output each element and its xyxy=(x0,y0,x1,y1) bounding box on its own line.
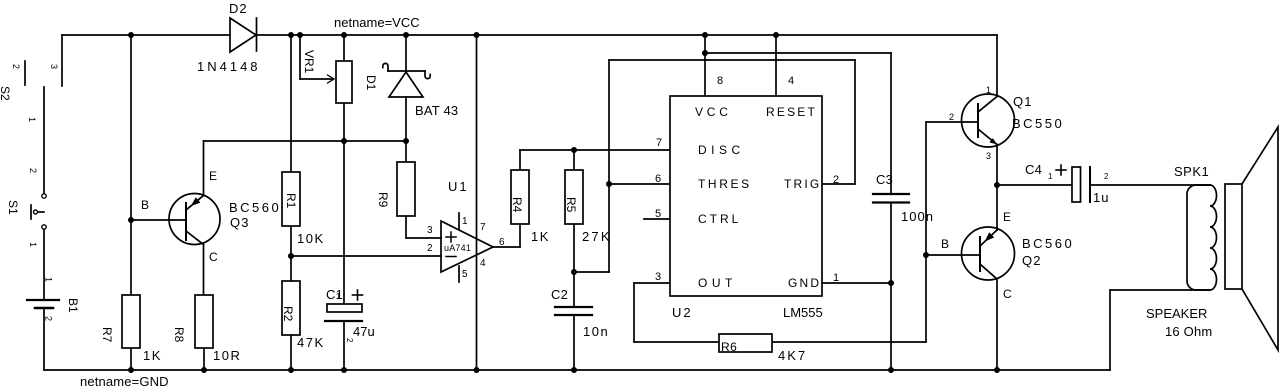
svg-text:1: 1 xyxy=(462,216,468,227)
svg-text:S2: S2 xyxy=(0,86,12,101)
svg-text:3: 3 xyxy=(655,271,661,283)
svg-text:D1: D1 xyxy=(364,75,378,91)
svg-text:R1: R1 xyxy=(284,193,298,209)
svg-text:7: 7 xyxy=(480,222,486,233)
svg-text:C3: C3 xyxy=(876,172,893,187)
svg-text:47K: 47K xyxy=(297,335,325,350)
svg-text:4: 4 xyxy=(788,75,794,87)
svg-text:GND: GND xyxy=(788,276,821,290)
svg-text:BC560: BC560 xyxy=(229,200,281,215)
svg-text:B: B xyxy=(941,237,949,251)
svg-text:4: 4 xyxy=(480,258,486,269)
svg-text:uA741: uA741 xyxy=(444,243,471,253)
svg-text:BAT 43: BAT 43 xyxy=(415,103,458,118)
svg-text:R2: R2 xyxy=(281,306,295,322)
svg-text:VR1: VR1 xyxy=(302,50,316,74)
svg-text:4K7: 4K7 xyxy=(778,348,807,363)
svg-text:RESET: RESET xyxy=(766,105,817,119)
svg-text:1: 1 xyxy=(336,292,341,301)
svg-text:D2: D2 xyxy=(229,1,248,16)
svg-text:C: C xyxy=(209,250,218,264)
svg-text:3: 3 xyxy=(986,151,991,161)
svg-text:SPK1: SPK1 xyxy=(1174,164,1209,179)
svg-text:R8: R8 xyxy=(172,327,186,343)
svg-text:E: E xyxy=(1003,210,1011,224)
svg-text:3: 3 xyxy=(49,64,59,69)
svg-text:8: 8 xyxy=(717,75,723,87)
svg-text:1u: 1u xyxy=(1093,190,1109,205)
svg-text:BC560: BC560 xyxy=(1022,236,1074,251)
svg-text:C1: C1 xyxy=(326,287,343,302)
svg-text:1K: 1K xyxy=(531,229,550,244)
svg-text:C: C xyxy=(1003,287,1012,301)
svg-text:16 Ohm: 16 Ohm xyxy=(1165,324,1212,339)
svg-text:Q3: Q3 xyxy=(230,215,250,230)
svg-text:10n: 10n xyxy=(583,324,609,339)
svg-text:SPEAKER: SPEAKER xyxy=(1146,306,1207,321)
svg-text:6: 6 xyxy=(655,173,661,185)
svg-text:R6: R6 xyxy=(721,340,737,354)
svg-text:Q1: Q1 xyxy=(1013,94,1033,109)
svg-text:R5: R5 xyxy=(564,197,578,213)
svg-text:2: 2 xyxy=(833,174,839,186)
svg-text:27K: 27K xyxy=(582,229,612,244)
svg-text:10R: 10R xyxy=(213,348,241,363)
svg-text:DISC: DISC xyxy=(698,143,745,157)
svg-text:U2: U2 xyxy=(672,305,693,320)
svg-text:CTRL: CTRL xyxy=(698,212,741,226)
svg-text:1K: 1K xyxy=(143,348,162,363)
svg-text:B1: B1 xyxy=(66,298,80,313)
svg-text:netname=VCC: netname=VCC xyxy=(334,15,420,30)
svg-text:2: 2 xyxy=(1104,172,1109,181)
svg-text:C4: C4 xyxy=(1025,162,1042,177)
svg-text:1: 1 xyxy=(833,272,839,284)
svg-text:2: 2 xyxy=(949,112,954,122)
svg-text:5: 5 xyxy=(462,269,468,280)
svg-text:1: 1 xyxy=(986,85,991,95)
svg-text:3: 3 xyxy=(427,225,433,236)
svg-text:S1: S1 xyxy=(6,200,20,215)
svg-text:1: 1 xyxy=(44,277,54,282)
svg-text:2: 2 xyxy=(44,316,54,321)
svg-text:E: E xyxy=(209,169,217,183)
svg-text:2: 2 xyxy=(427,243,433,254)
svg-text:VCC: VCC xyxy=(695,105,732,119)
svg-text:1: 1 xyxy=(1048,172,1053,181)
svg-text:LM555: LM555 xyxy=(783,305,823,320)
svg-text:2: 2 xyxy=(11,64,21,69)
svg-text:THRES: THRES xyxy=(698,177,752,191)
svg-text:C2: C2 xyxy=(551,287,568,302)
svg-text:U1: U1 xyxy=(448,179,469,194)
svg-text:7: 7 xyxy=(656,137,662,149)
svg-text:TRIG: TRIG xyxy=(784,177,821,191)
svg-text:R4: R4 xyxy=(510,197,524,213)
svg-text:2: 2 xyxy=(28,168,38,173)
svg-text:R9: R9 xyxy=(376,192,390,208)
svg-text:BC550: BC550 xyxy=(1012,116,1064,131)
svg-text:100n: 100n xyxy=(901,209,934,224)
svg-text:10K: 10K xyxy=(297,231,325,246)
svg-text:1: 1 xyxy=(28,242,38,247)
svg-text:Q2: Q2 xyxy=(1022,253,1042,268)
svg-text:netname=GND: netname=GND xyxy=(80,374,169,388)
svg-text:R7: R7 xyxy=(100,327,114,343)
svg-text:1N4148: 1N4148 xyxy=(197,59,261,74)
svg-text:6: 6 xyxy=(499,237,505,248)
svg-text:5: 5 xyxy=(655,208,661,220)
svg-text:B: B xyxy=(141,198,149,212)
svg-text:OUT: OUT xyxy=(698,276,737,290)
svg-text:1: 1 xyxy=(27,117,37,122)
svg-text:47u: 47u xyxy=(353,324,375,339)
